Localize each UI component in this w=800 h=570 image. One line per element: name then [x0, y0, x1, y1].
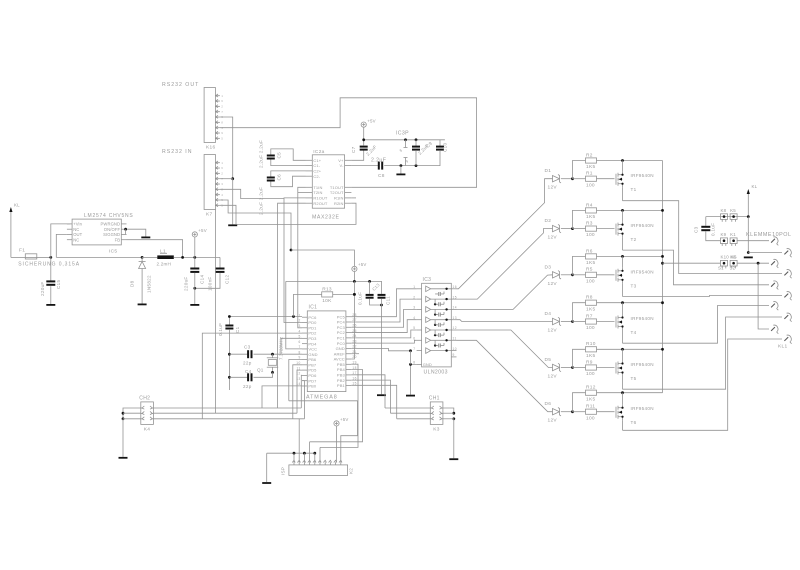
- junction source T4: [621, 301, 624, 304]
- wire PD5 drop: [297, 370, 302, 413]
- junction gate node T4: [571, 320, 574, 323]
- wire R1 to gate: [597, 178, 615, 180]
- svg-text:C1: C1: [235, 326, 240, 333]
- wire bus C right: [397, 418, 431, 420]
- junction R13 5V: [353, 293, 356, 296]
- node KL supply input arrow: [9, 203, 20, 258]
- svg-text:R10: R10: [586, 341, 596, 347]
- resistor R6 1K5: [586, 248, 597, 266]
- wire R11 to gate: [597, 411, 615, 413]
- wire CH2 pin3: [123, 418, 141, 420]
- wire +5V branch: [291, 250, 354, 266]
- junction 5V node: [193, 256, 196, 259]
- svg-text:PC0: PC0: [337, 341, 346, 346]
- junction CH2 gnd b: [122, 417, 125, 420]
- diode D1 zener 12V: [545, 168, 562, 191]
- connector CH1: [429, 396, 443, 433]
- diode D5 zener 12V: [545, 357, 562, 380]
- resistor R2 1K5: [586, 152, 597, 170]
- svg-text:R13: R13: [322, 286, 332, 292]
- wire drain T6: [622, 420, 624, 430]
- wire source T4: [622, 303, 624, 314]
- svg-text:8: 8: [399, 148, 404, 153]
- svg-text:2.2mH: 2.2mH: [157, 262, 172, 267]
- svg-text:GND: GND: [423, 362, 432, 367]
- wire bus B right: [391, 412, 431, 414]
- inductor L1 2.2mH: [157, 249, 174, 267]
- wire isp pin 314.8: [314, 453, 316, 462]
- svg-text:ULN2003: ULN2003: [424, 370, 448, 376]
- svg-text:SICHERUNG 0,315A: SICHERUNG 0,315A: [18, 262, 80, 268]
- wire gate node riser T3: [573, 256, 586, 274]
- svg-text:OUT: OUT: [73, 232, 82, 237]
- junction reset R13: [292, 315, 295, 318]
- node KL1 pin 2: [784, 249, 791, 258]
- supply +5V ISP: [334, 417, 349, 462]
- svg-text:T4: T4: [631, 330, 637, 335]
- node KL1 pin 4: [784, 270, 791, 279]
- junction avcc rail a: [353, 280, 356, 283]
- wire R6 to source rail: [597, 255, 663, 257]
- node IC3P power pins: [396, 131, 409, 166]
- junction S vertical: [757, 262, 760, 265]
- svg-text:4: 4: [299, 329, 301, 333]
- junction FB node: [181, 256, 184, 259]
- jumper K1: [730, 232, 737, 246]
- wire drain1 out: [623, 201, 783, 274]
- svg-text:VCC: VCC: [308, 347, 317, 352]
- ground K7: [228, 224, 237, 226]
- svg-text:IRF9540N: IRF9540N: [631, 362, 654, 367]
- op-amp IC5 LM2574 regulator: [67, 213, 134, 255]
- svg-text:GND: GND: [336, 346, 345, 351]
- resistor R5 100: [586, 267, 597, 285]
- wire drain T1: [622, 187, 624, 201]
- svg-text:D2: D2: [545, 218, 552, 224]
- node KL1 pin 10: [784, 335, 791, 344]
- svg-text:PD0: PD0: [308, 320, 317, 325]
- wire source T2: [622, 210, 624, 221]
- svg-text:D6: D6: [545, 401, 552, 407]
- svg-text:K3: K3: [433, 426, 439, 432]
- svg-text:R2: R2: [586, 152, 593, 158]
- wire 12V source rail: [662, 161, 664, 393]
- wire FB feedback: [127, 240, 183, 258]
- ground below D8: [138, 304, 147, 306]
- wire K16 TX long: [220, 98, 477, 188]
- resistor R8 1K5: [586, 295, 597, 313]
- wire D6 to gate node: [561, 411, 573, 413]
- wire isp p4: [309, 442, 311, 463]
- svg-text:C3: C3: [244, 345, 251, 350]
- capacitor C4 22p: [247, 373, 252, 381]
- svg-text:PB4: PB4: [337, 367, 346, 372]
- wire C3 bottom: [706, 231, 721, 241]
- junction C15/Vin: [49, 256, 52, 259]
- svg-text:IC1: IC1: [309, 305, 318, 311]
- wire SIGGND tie: [125, 229, 128, 234]
- ground below C11: [377, 394, 386, 396]
- junction isp gnd 294: [293, 452, 296, 455]
- svg-text:+5V: +5V: [367, 118, 376, 123]
- wire bus A left: [153, 407, 301, 409]
- svg-text:11: 11: [296, 366, 300, 370]
- wire K rail down: [747, 217, 749, 253]
- svg-text:100: 100: [586, 182, 595, 188]
- svg-text:3: 3: [413, 306, 415, 310]
- junction gate node T3: [571, 273, 574, 276]
- svg-text:PB5: PB5: [337, 362, 346, 367]
- svg-text:0.1uF: 0.1uF: [358, 292, 363, 305]
- svg-text:C8: C8: [378, 173, 385, 179]
- svg-text:KL: KL: [752, 184, 758, 189]
- svg-text:IRF9540N: IRF9540N: [631, 269, 654, 274]
- diode D4 zener 12V: [545, 311, 562, 334]
- wire PD2 loop: [202, 333, 302, 419]
- svg-text:1K5: 1K5: [586, 164, 595, 170]
- capacitor C1 100nF: [225, 325, 233, 330]
- svg-text:T1: T1: [631, 187, 637, 192]
- svg-text:2: 2: [299, 319, 301, 323]
- svg-text:1K5: 1K5: [586, 353, 595, 359]
- svg-text:K6: K6: [731, 255, 737, 260]
- svg-text:T2IN: T2IN: [313, 190, 322, 195]
- wire out1 diag: [457, 179, 553, 289]
- wire K16 pin5 drop: [220, 117, 233, 179]
- node KL1 pin 5: [771, 281, 778, 290]
- svg-text:IC2a: IC2a: [313, 149, 324, 155]
- wire C6 top loop: [271, 171, 306, 177]
- wire K8K5 row: [706, 216, 749, 218]
- svg-text:R3: R3: [586, 221, 593, 227]
- resistor R1 100: [586, 171, 597, 189]
- svg-text:KL1: KL1: [778, 344, 787, 350]
- svg-text:5: 5: [413, 326, 415, 330]
- junction source T1: [621, 159, 624, 162]
- svg-text:T6: T6: [631, 420, 637, 425]
- svg-text:PB1: PB1: [337, 383, 346, 388]
- svg-text:ISP: ISP: [281, 467, 286, 475]
- transistor T2 IRF9540N: [616, 221, 654, 242]
- svg-text:5: 5: [221, 137, 223, 141]
- wire C9 bottom: [415, 151, 417, 166]
- junction +5V branch: [290, 249, 293, 252]
- svg-text:PB7: PB7: [308, 362, 317, 367]
- node KL battery arrow: [747, 184, 758, 217]
- wire C3 top: [705, 217, 707, 226]
- junction reset node: [228, 315, 231, 318]
- svg-text:PD2: PD2: [308, 331, 317, 336]
- wire K7 to R1OUT column: [220, 189, 284, 198]
- svg-text:12V: 12V: [548, 418, 558, 424]
- svg-text:IRF9540N: IRF9540N: [631, 223, 654, 228]
- svg-text:7: 7: [413, 347, 415, 351]
- jumper K8: [721, 208, 728, 222]
- svg-text:PD5: PD5: [308, 368, 317, 373]
- junction gate node T1: [571, 177, 574, 180]
- junction caps gnd: [380, 304, 383, 307]
- svg-text:C9: C9: [425, 141, 433, 149]
- wire gate node riser T1: [573, 161, 586, 179]
- junction cap gnd: [193, 287, 196, 290]
- op-amp IC2 MAX232E: [306, 149, 352, 221]
- svg-text:S1: S1: [718, 266, 724, 271]
- wire gate series: [573, 274, 586, 276]
- svg-text:T1IN: T1IN: [313, 185, 322, 190]
- diode D2 zener 12V: [545, 218, 562, 241]
- svg-text:AVCC: AVCC: [334, 357, 345, 362]
- diode D6 zener 12V: [545, 401, 562, 424]
- svg-text:V-: V-: [340, 163, 345, 168]
- junction rail C7: [362, 138, 365, 141]
- junction kl gnd: [747, 251, 750, 254]
- ground ULN2003: [406, 395, 415, 397]
- svg-text:K2: K2: [349, 468, 354, 474]
- svg-text:2.2uF 2.2uF: 2.2uF 2.2uF: [259, 187, 264, 215]
- wire reset line: [229, 316, 302, 318]
- junction xtal top: [271, 353, 274, 356]
- wire out6 diag: [457, 340, 553, 411]
- wire V- bottom rail: [351, 165, 378, 167]
- svg-text:C1-: C1-: [313, 163, 320, 168]
- svg-text:IRF9540N: IRF9540N: [631, 316, 654, 321]
- svg-text:2.2uF 2.2uF: 2.2uF 2.2uF: [259, 140, 264, 168]
- svg-text:PD7: PD7: [308, 378, 317, 383]
- svg-text:R1: R1: [586, 171, 593, 177]
- wire reset rail: [228, 317, 230, 325]
- svg-text:IC3: IC3: [423, 277, 432, 283]
- svg-text:6: 6: [299, 340, 301, 344]
- wire source T6: [622, 393, 624, 405]
- jumper K10: [721, 255, 730, 269]
- wire C14 lead: [194, 257, 196, 268]
- transistor T4 IRF9540N: [616, 314, 654, 335]
- svg-text:12V: 12V: [548, 235, 558, 241]
- svg-text:12V: 12V: [548, 328, 558, 334]
- svg-text:R2IN: R2IN: [334, 201, 344, 206]
- svg-text:ATMEGA8: ATMEGA8: [306, 394, 338, 400]
- wire PB4 drop: [310, 370, 363, 442]
- junction rail y210: [661, 209, 664, 212]
- wire C12 top lead: [219, 257, 221, 268]
- wire CH2 gnd drop: [122, 419, 124, 457]
- wire input rail to fuse: [11, 256, 25, 258]
- junction rail y349: [661, 348, 664, 351]
- crystal Q1 7.3728MHz: [257, 337, 284, 373]
- junction source T2: [621, 209, 624, 212]
- junction gate node T2: [571, 227, 574, 230]
- wire V+ to C7: [351, 151, 363, 161]
- wire out3 diag: [457, 275, 553, 310]
- junction CH2 gnd a: [122, 412, 125, 415]
- wire C9 lead: [415, 140, 417, 146]
- wire bus C left: [153, 418, 304, 420]
- wire R10 to source rail: [597, 348, 663, 350]
- resistor R10 1K5: [586, 341, 597, 359]
- wire source T1: [622, 161, 624, 172]
- wire cap B to crystal: [254, 372, 273, 377]
- wire bus A right: [385, 407, 430, 409]
- svg-text:C2-: C2-: [313, 174, 320, 179]
- svg-text:K5: K5: [730, 208, 736, 213]
- svg-text:T3: T3: [631, 283, 637, 288]
- wire +5V rail top: [364, 139, 445, 141]
- wire bus seg 400: [289, 400, 358, 402]
- wire drain T4: [622, 330, 624, 343]
- wire K7 service drop: [214, 209, 216, 413]
- connector K16 RS232 OUT: [162, 82, 223, 151]
- wire isp p6: [319, 447, 321, 462]
- jumper K9: [721, 232, 728, 246]
- svg-text:3: 3: [221, 182, 223, 186]
- svg-text:T1OUT: T1OUT: [330, 185, 344, 190]
- svg-text:10: 10: [453, 347, 458, 351]
- node KL1 pin 6: [784, 292, 791, 301]
- svg-text:0.1uF: 0.1uF: [218, 323, 223, 336]
- svg-text:C6: C6: [277, 174, 282, 181]
- capacitor C9 2.2uF: [412, 146, 420, 151]
- svg-text:+Vin: +Vin: [73, 222, 82, 227]
- svg-text:R12: R12: [586, 385, 596, 391]
- svg-text:LM2574 CHV5NS: LM2574 CHV5NS: [84, 213, 134, 219]
- transistor T3 IRF9540N: [616, 267, 654, 288]
- junction source T3: [621, 255, 624, 258]
- wire gate node riser T4: [573, 303, 586, 322]
- capacitor C3 22p: [247, 350, 252, 358]
- svg-text:9: 9: [221, 131, 223, 135]
- wire drain T2: [622, 237, 624, 250]
- svg-text:4: 4: [221, 193, 223, 197]
- jumper K6: [730, 255, 737, 269]
- svg-text:12V: 12V: [548, 281, 558, 287]
- fuse F1: [18, 248, 80, 268]
- wire gate node riser T6: [573, 393, 586, 412]
- wire IC1 right gnd: [351, 348, 410, 350]
- junction isp gnd 314.8: [313, 452, 316, 455]
- wire +5V to AVCC pin: [351, 281, 354, 359]
- svg-text:CH2: CH2: [139, 396, 150, 402]
- wire isp gnd rail: [267, 452, 315, 454]
- svg-text:16: 16: [453, 285, 458, 289]
- svg-text:RS232 IN: RS232 IN: [162, 149, 193, 155]
- svg-text:AREF: AREF: [334, 351, 346, 356]
- wire R13 to +5V rail: [333, 293, 355, 295]
- diode D8 1N5822: [130, 262, 152, 304]
- svg-text:1K5: 1K5: [586, 396, 595, 402]
- svg-text:12V: 12V: [548, 374, 558, 380]
- svg-text:C4: C4: [245, 369, 252, 374]
- junction CH1 gnd a: [452, 412, 455, 415]
- wire K10 row: [663, 262, 721, 264]
- wire PD6 drop: [300, 375, 303, 408]
- junction rail y263: [661, 262, 664, 265]
- wire T2IN stub: [298, 192, 306, 194]
- wire C7 to +5V rail: [363, 140, 365, 146]
- capacitor C15 220uF: [46, 280, 55, 285]
- svg-text:KLEMME10POL: KLEMME10POL: [746, 232, 792, 238]
- wire PB0 drop: [262, 386, 302, 408]
- junction gate node T5: [571, 366, 574, 369]
- svg-text:R6: R6: [586, 248, 593, 254]
- svg-text:2.2uF: 2.2uF: [371, 158, 386, 164]
- wire drain3 out: [623, 296, 783, 297]
- svg-text:1: 1: [221, 161, 223, 165]
- capacitor C12 100nF: [216, 268, 225, 273]
- svg-text:PB3: PB3: [337, 372, 346, 377]
- connector K7 RS232 IN: [162, 149, 223, 218]
- wire PB6 drop: [289, 360, 302, 401]
- wire R1OUT to PD0: [284, 198, 306, 323]
- wire R9 to gate: [597, 367, 615, 369]
- svg-text:K9: K9: [721, 232, 727, 237]
- svg-text:MAX232E: MAX232E: [312, 215, 340, 221]
- wire shield to gnd: [232, 179, 234, 225]
- wire out5 diag: [457, 330, 553, 368]
- wire out2 diag: [457, 229, 553, 300]
- wire drain5 out: [623, 317, 783, 389]
- junction xtal bottom: [271, 371, 274, 374]
- svg-text:13: 13: [453, 316, 458, 320]
- wire isp pin 294: [293, 453, 295, 462]
- wire R2 to source rail: [597, 160, 663, 162]
- wire PC0 to ULN in6: [351, 340, 416, 343]
- wire source T3: [622, 256, 624, 267]
- wire gate series: [573, 178, 586, 180]
- wire rail to L1: [142, 256, 157, 258]
- svg-text:R9: R9: [586, 359, 593, 365]
- wire R1IN stub: [351, 197, 356, 199]
- capacitor C13 100nF: [366, 294, 374, 299]
- wire D3 to gate node: [561, 274, 573, 276]
- svg-text:15: 15: [453, 295, 458, 299]
- svg-text:K1: K1: [730, 232, 736, 237]
- junction rail y256: [661, 255, 664, 258]
- wire K7 step b: [220, 200, 291, 250]
- svg-text:FB: FB: [115, 237, 121, 242]
- svg-text:K10: K10: [721, 255, 730, 260]
- junction xtal cap A: [228, 353, 231, 356]
- svg-text:KL: KL: [14, 203, 20, 208]
- junction ON/OFF-SIGGND: [124, 228, 127, 231]
- svg-text:100: 100: [586, 278, 595, 284]
- svg-text:10K: 10K: [322, 298, 332, 304]
- wire to arc2: [748, 252, 782, 254]
- svg-text:SIGGND: SIGGND: [103, 232, 120, 237]
- svg-text:IRF9540N: IRF9540N: [631, 173, 654, 178]
- svg-text:1K5: 1K5: [586, 260, 595, 266]
- svg-text:9: 9: [453, 353, 455, 357]
- wire CH2 pin2: [123, 412, 141, 414]
- wire drain T5: [622, 376, 624, 389]
- wire Vin riser: [51, 224, 70, 258]
- junction K7 shield: [231, 177, 234, 180]
- wire drain T3: [622, 283, 624, 296]
- resistor R9 100: [586, 359, 597, 377]
- junction C9 bottom: [415, 164, 418, 167]
- svg-text:Q1: Q1: [257, 368, 264, 373]
- svg-text:C14: C14: [200, 275, 205, 284]
- svg-text:C12: C12: [225, 275, 230, 284]
- wire D1 to gate node: [561, 178, 573, 180]
- transistor T5 IRF9540N: [616, 360, 654, 381]
- junction rail y302: [661, 301, 664, 304]
- svg-text:PWRGND: PWRGND: [101, 222, 121, 227]
- wire R2OUT drop: [278, 203, 306, 408]
- svg-text:D5: D5: [545, 357, 552, 363]
- resistor R13 10K: [322, 286, 333, 304]
- svg-text:220uF: 220uF: [184, 276, 189, 291]
- svg-text:D8: D8: [130, 280, 135, 287]
